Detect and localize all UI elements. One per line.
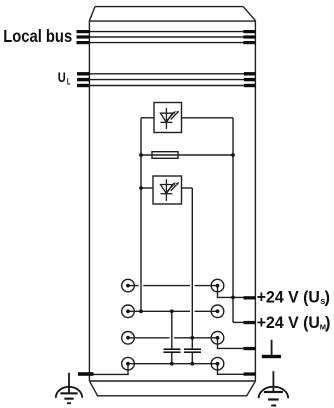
svg-text:L: L <box>67 76 71 86</box>
svg-text:+24 V (U: +24 V (U <box>257 289 320 307</box>
svg-text:): ) <box>325 314 331 332</box>
svg-text:): ) <box>325 289 331 307</box>
svg-text:U: U <box>58 70 66 86</box>
svg-text:Local bus: Local bus <box>3 26 72 46</box>
svg-text:+24 V (U: +24 V (U <box>257 314 320 332</box>
